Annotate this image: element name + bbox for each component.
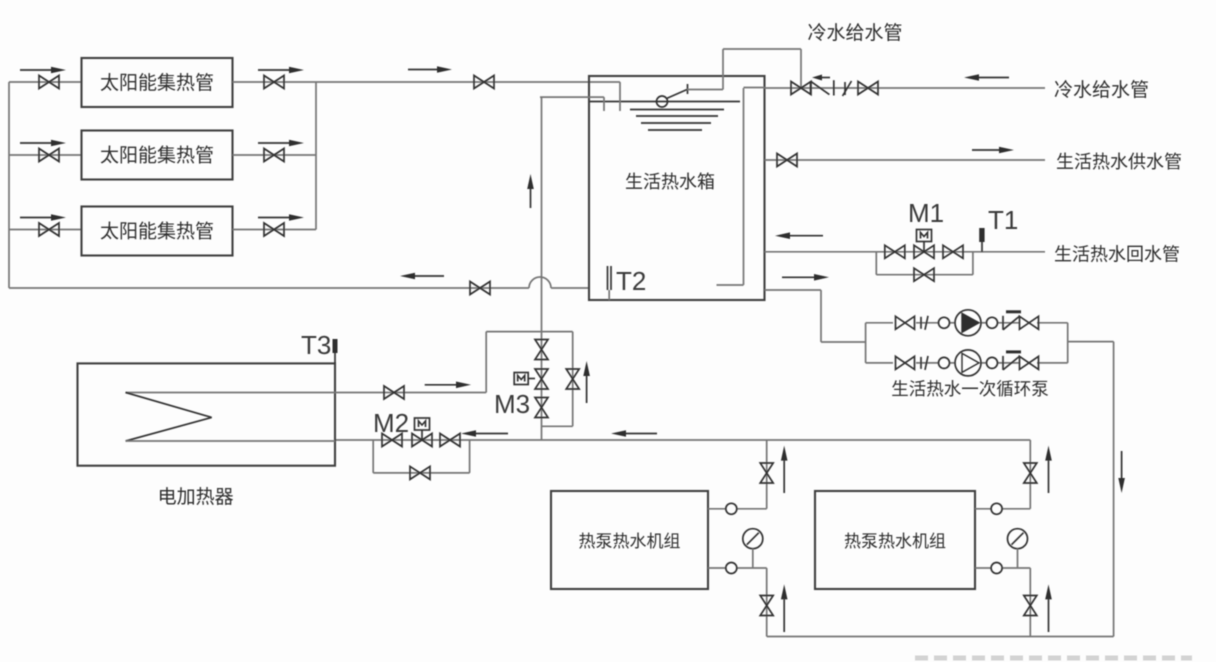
tank water hatch 4 [648, 129, 702, 131]
valve M3 bottom [535, 398, 548, 418]
valve unit 1 top [760, 463, 773, 483]
arrow flow right pump inlet [782, 274, 829, 281]
arrow flow up unit 2 bottom [1045, 584, 1052, 632]
union pump 1 [921, 316, 928, 330]
svg-text:太阳能集热管: 太阳能集热管 [100, 68, 214, 95]
float ball valve [657, 84, 688, 107]
heater 电加热器 body [78, 363, 336, 465]
valve solar row 2 outlet [264, 149, 284, 162]
flange unit 2 top [991, 503, 1002, 514]
pump P2 循环泵 [955, 350, 981, 376]
heat pump unit 1 body [551, 491, 708, 589]
union cold water [843, 81, 852, 96]
valve pump 1 suction [896, 316, 915, 329]
svg-text:电加热器: 电加热器 [158, 482, 234, 509]
wire heater bottom pipe [126, 440, 336, 442]
wire solar return line bump over riser [529, 277, 551, 288]
wire solar field right header [315, 82, 317, 230]
sensor T2 probe [608, 266, 612, 300]
wire heater top pipe [126, 392, 487, 394]
wire cold water bracket [723, 49, 801, 90]
flange pump 1 outlet [987, 317, 998, 328]
svg-text:生活热水一次循环泵: 生活热水一次循环泵 [891, 376, 1049, 401]
arrow flow right row 2 inlet [20, 140, 66, 147]
wire solar row 2 right pipe [233, 154, 317, 156]
arrow flow right solar supply [408, 66, 452, 73]
sensor T3 probe [333, 339, 338, 363]
wire solar return line left part [9, 287, 529, 289]
solar collector box 1 [82, 58, 233, 107]
heater element chevron [126, 393, 212, 442]
arrow flow up unit 2 top [1045, 446, 1052, 493]
wire solar supply line to tank [316, 81, 620, 83]
valve pump 1 discharge [1020, 316, 1039, 329]
wire bottom return line [767, 636, 1114, 638]
wire pump branch 1 [866, 322, 1068, 324]
watermark remnant [915, 656, 1192, 661]
arrow flow down right riser [1118, 451, 1125, 493]
arrow flow left main 2 [611, 430, 657, 437]
valve solar row 2 inlet [39, 149, 59, 162]
valve M3 top [535, 340, 548, 360]
pump P1 循环泵 [955, 310, 981, 336]
svg-text:T1: T1 [988, 205, 1018, 235]
wire riser inlet top [540, 97, 604, 111]
svg-text:生活热水箱: 生活热水箱 [625, 168, 715, 194]
flange pump 2 outlet [987, 357, 998, 368]
flange unit 1 top [726, 503, 737, 514]
svg-text:生活热水供水管: 生活热水供水管 [1056, 148, 1182, 174]
wire solar row 3 right pipe [233, 229, 317, 231]
wire solar row 1 left pipe [9, 81, 82, 83]
tank water level line [590, 101, 740, 103]
solar collector box 2 [82, 131, 233, 180]
valve unit 2 top [1024, 463, 1037, 483]
arrow flow up riser [527, 174, 534, 208]
arrow flow right row 3 outlet [258, 214, 304, 221]
gauge unit 1 [743, 529, 763, 568]
valve pump 2 discharge [1020, 356, 1039, 369]
arrow flow left over check valve [812, 75, 830, 81]
arrow flow right row 1 outlet [258, 67, 304, 74]
valve M1 upstream [885, 245, 905, 258]
label circulation pumps [891, 376, 1049, 401]
svg-text:热泵热水机组: 热泵热水机组 [579, 527, 681, 552]
wire hot water return line [765, 251, 1046, 253]
valve cold water gate 2 [858, 82, 878, 95]
svg-text:M2: M2 [373, 408, 409, 438]
valve cold water gate 1 [791, 82, 811, 95]
valve M3 motorized [514, 369, 548, 389]
flange pump 2 inlet [939, 357, 950, 368]
heat pump unit 2 body [815, 491, 975, 589]
arrow flow left cold water [964, 74, 1009, 81]
svg-text:冷水给水管: 冷水给水管 [807, 18, 902, 45]
svg-text:M3: M3 [494, 389, 530, 419]
svg-text:T3: T3 [301, 330, 331, 360]
solar collector box 3 [82, 207, 233, 256]
wire solar row 2 left pipe [9, 154, 82, 156]
label hot water return [1054, 241, 1180, 267]
wire pump branch left header [865, 323, 867, 363]
wire unit 2 bottom stub [975, 568, 1030, 637]
wire M1 bypass loop [876, 252, 973, 275]
valve M2 bypass [410, 466, 430, 479]
wire solar return line right part [551, 287, 589, 289]
valve M3 bypass [566, 369, 579, 389]
tank water hatch 3 [641, 122, 711, 124]
wire unit 2 top stub [975, 440, 1030, 509]
label hot water supply [1056, 148, 1182, 174]
flange pump 1 inlet [939, 317, 950, 328]
label M2 [373, 408, 409, 438]
valve hot water supply [777, 154, 797, 167]
valve solar supply [474, 76, 494, 89]
arrow flow right supply [972, 147, 1014, 154]
tank 生活热水箱 body [589, 76, 765, 300]
valve unit 2 bottom [1024, 596, 1037, 616]
wire pump branch right header [1067, 323, 1069, 363]
valve M1 bypass [914, 268, 934, 281]
wire solar field left header [8, 82, 10, 288]
label tank [625, 168, 715, 194]
label M1 [908, 198, 944, 228]
wire main bottom line [335, 439, 1030, 441]
wire float valve arm [687, 89, 723, 91]
valve solar row 1 outlet [264, 76, 284, 89]
check valve cold water [811, 80, 834, 95]
label M3 [494, 389, 530, 419]
valve solar row 3 outlet [264, 223, 284, 236]
arrow flow left return [775, 232, 823, 239]
arrow flow left solar return [400, 273, 444, 280]
wire M2 bypass loop [373, 440, 469, 473]
wire pump branch 2 [866, 362, 1068, 364]
wire tank outlet to pumps [765, 290, 866, 342]
label cold water top [807, 18, 902, 45]
tank water hatch 1 [630, 109, 724, 111]
valve M2 motorized [412, 418, 432, 447]
arrow flow right row 3 inlet [20, 214, 66, 221]
valve M1 downstream [943, 245, 963, 258]
svg-text:生活热水回水管: 生活热水回水管 [1054, 241, 1180, 267]
valve M2 upstream [382, 434, 402, 447]
valve unit 1 bottom [760, 596, 773, 616]
wire M3 loop [486, 332, 573, 427]
arrow flow left main 1 [461, 430, 508, 437]
valve solar return [470, 282, 490, 295]
wire unit 1 bottom stub [708, 568, 767, 637]
arrow flow right row 2 outlet [258, 140, 304, 147]
valve solar row 1 inlet [39, 76, 59, 89]
arrow flow up unit 1 bottom [781, 584, 788, 632]
valve M2 downstream [440, 434, 460, 447]
valve solar row 3 inlet [39, 223, 59, 236]
union pump 2 [921, 356, 928, 370]
valve pump 2 suction [896, 356, 915, 369]
label T2 [616, 266, 646, 296]
svg-text:T2: T2 [616, 266, 646, 296]
wire riser M3 to tank [541, 97, 543, 440]
wire right riser down [1113, 342, 1115, 637]
sensor T1 probe [979, 228, 984, 252]
wire solar row 1 right pipe [233, 81, 317, 83]
flange unit 2 bottom [991, 563, 1002, 574]
check valve pump 2 [1003, 352, 1021, 370]
flange unit 1 bottom [726, 563, 737, 574]
check valve pump 1 [1003, 312, 1021, 330]
wire pump outlet line [1068, 341, 1114, 343]
wire tank internal drop pipe [717, 88, 744, 285]
svg-text:太阳能集热管: 太阳能集热管 [100, 141, 214, 168]
label T3 [301, 330, 331, 360]
label heater [158, 482, 234, 509]
wire solar inlet stub [619, 82, 621, 111]
valve heater outlet [384, 386, 404, 399]
arrow flow right heater outlet [425, 382, 471, 389]
arrow flow up unit 1 top [781, 446, 788, 493]
wire cold water line [744, 87, 1046, 90]
svg-text:M1: M1 [908, 198, 944, 228]
label cold water right [1054, 75, 1149, 102]
gauge unit 2 [1008, 529, 1028, 568]
wire solar row 3 left pipe [9, 229, 82, 231]
svg-text:冷水给水管: 冷水给水管 [1054, 75, 1149, 102]
valve M1 motorized [914, 230, 934, 259]
wire hot water supply line [765, 159, 1046, 161]
svg-text:太阳能集热管: 太阳能集热管 [100, 217, 214, 244]
label T1 [988, 205, 1018, 235]
tank water hatch 2 [636, 115, 718, 117]
wire unit 1 top stub [708, 440, 767, 509]
svg-text:热泵热水机组: 热泵热水机组 [844, 527, 946, 552]
arrow flow up M3 bypass [583, 361, 590, 403]
arrow flow right row 1 inlet [20, 67, 66, 74]
